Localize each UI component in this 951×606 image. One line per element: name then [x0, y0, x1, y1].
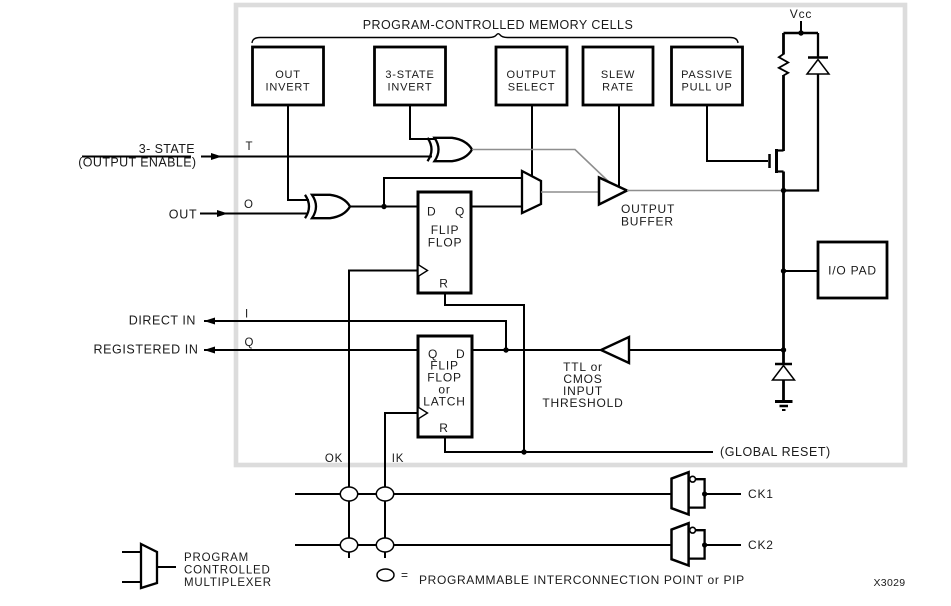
transistor Q1 passive pull-up [770, 149, 784, 173]
wire OK clock line [349, 271, 418, 559]
wire mux bypass from node [384, 178, 522, 207]
svg-text:MULTIPLEXER: MULTIPLEXER [184, 577, 272, 589]
memory cell box OUTPUT SELECT [496, 47, 567, 105]
svg-text:LATCH: LATCH [423, 395, 465, 409]
wire pad to input buffer [629, 349, 784, 351]
svg-text:Q: Q [455, 205, 465, 219]
PIP circle OK/CK1 [340, 487, 357, 501]
arrowhead O input [217, 210, 228, 217]
diode D1 to Vcc [807, 58, 829, 75]
label 3-STATE (OUTPUT ENABLE) [78, 142, 196, 170]
svg-text:PASSIVE: PASSIVE [681, 69, 733, 81]
junction dot pad node [781, 188, 786, 193]
svg-text:X3029: X3029 [874, 577, 906, 589]
svg-text:3-STATE: 3-STATE [385, 69, 434, 81]
svg-text:INVERT: INVERT [388, 82, 433, 94]
wire Vcc stub [800, 21, 802, 33]
wire Vcc rail [784, 32, 819, 35]
wire registered in [204, 349, 418, 351]
wire Vcc to protection diode [817, 33, 819, 58]
wire flip-flop U2 reset to global reset [445, 437, 713, 452]
wire mux output to buffer (gray) [541, 191, 599, 193]
wire PASSIVE PULL UP box to transistor gate [707, 105, 768, 161]
label TTL or CMOS INPUT THRESHOLD [542, 360, 623, 410]
PIP circle OK/CK2 [340, 538, 357, 552]
input buffer TTL/CMOS [601, 337, 629, 363]
junction dot at OUT XOR output [381, 204, 386, 209]
xor gate 3-state invert [428, 138, 473, 161]
svg-text:THRESHOLD: THRESHOLD [542, 396, 623, 410]
wire diode D1 to pad node [784, 74, 819, 191]
flip-flop U1 (output) [418, 192, 471, 293]
mux output select [522, 171, 541, 213]
PIP circle IK/CK1 [376, 487, 393, 501]
svg-text:R: R [439, 277, 448, 291]
memory cell box OUT INVERT [253, 47, 324, 105]
svg-text:DIRECT IN: DIRECT IN [129, 314, 196, 328]
svg-text:Q: Q [245, 337, 255, 349]
wire diode D2 to ground [782, 380, 785, 401]
diode D2 to ground [773, 364, 795, 380]
brace over memory cells [252, 34, 738, 43]
svg-text:(GLOBAL RESET): (GLOBAL RESET) [720, 445, 831, 459]
svg-text:FLOP: FLOP [428, 236, 463, 250]
wire direct in [204, 321, 506, 350]
label PROGRAM CONTROLLED MULTIPLEXER [184, 552, 272, 589]
svg-text:OUT: OUT [275, 69, 301, 81]
wire OUTPUT SELECT box to mux select [531, 105, 533, 176]
svg-text:IK: IK [392, 453, 404, 465]
svg-text:OUTPUT: OUTPUT [506, 69, 556, 81]
wire output buffer to pad node (gray) [627, 190, 784, 192]
junction dot reset [521, 449, 526, 454]
junction dot at I/O pad tap [781, 268, 786, 273]
svg-text:OUT: OUT [169, 208, 198, 222]
memory cell box SLEW RATE [583, 47, 653, 105]
clock triangle flip-flop U1 [418, 265, 428, 277]
wire to I/O pad box [784, 270, 819, 272]
arrowhead registered in [204, 347, 215, 354]
wire pad node down to I/O pad [782, 191, 785, 365]
svg-text:INVERT: INVERT [266, 82, 311, 94]
arrowhead T input [211, 153, 222, 160]
wire 3-STATE INVERT box to 3-state XOR top input [410, 105, 440, 139]
svg-text:CK1: CK1 [748, 487, 774, 501]
svg-text:CK2: CK2 [748, 538, 774, 552]
xor gate out invert [305, 195, 350, 218]
mux CK1 [672, 472, 742, 514]
ground [775, 402, 793, 411]
wire SLEW RATE box to output buffer [618, 105, 620, 188]
svg-text:BUFFER: BUFFER [621, 215, 674, 229]
output buffer [599, 178, 627, 205]
svg-text:D: D [427, 205, 436, 219]
wire flip-flop Q to mux [471, 206, 522, 208]
legend PIP circle [377, 569, 394, 581]
wire resistor to transistor [782, 75, 785, 151]
wire T input to 3-state XOR [201, 156, 432, 158]
PIP circle IK/CK2 [376, 538, 393, 552]
svg-text:I: I [245, 309, 249, 321]
junction dot input tap [781, 347, 786, 352]
svg-text:O: O [244, 199, 254, 211]
wire CK2 line [295, 544, 672, 546]
svg-text:CONTROLLED: CONTROLLED [184, 565, 271, 577]
I/O pad box [818, 242, 887, 298]
svg-text:PULL UP: PULL UP [681, 82, 732, 94]
wire IK clock line [385, 413, 418, 558]
label PIP legend [401, 568, 745, 587]
wire O input to OUT XOR [200, 213, 308, 215]
svg-text:PROGRAM-CONTROLLED MEMORY CELL: PROGRAM-CONTROLLED MEMORY CELLS [363, 18, 633, 32]
wire T input segment left [82, 156, 191, 158]
flip-flop U2 (input latch) [418, 336, 472, 437]
svg-text:OK: OK [325, 453, 343, 465]
svg-text:SELECT: SELECT [508, 82, 556, 94]
svg-text:RATE: RATE [602, 82, 634, 94]
wire 3-state XOR output (gray) [472, 150, 609, 183]
wire flip-flop U1 reset [445, 293, 524, 452]
svg-text:T: T [246, 141, 254, 153]
resistor pull-up [779, 54, 788, 76]
legend mux symbol [122, 544, 176, 588]
svg-text:SLEW: SLEW [601, 69, 635, 81]
wire input buffer to latch D [472, 349, 601, 351]
svg-text:3- STATE: 3- STATE [139, 142, 195, 156]
wire transistor drain to pad node [782, 172, 785, 193]
mux CK2 [672, 523, 742, 565]
wire CK1 line [295, 493, 672, 495]
memory cell box 3-STATE INVERT [375, 47, 446, 105]
junction dot direct-in tap [503, 347, 508, 352]
svg-text:PROGRAM: PROGRAM [184, 552, 249, 564]
label OUTPUT BUFFER [621, 202, 675, 229]
svg-text:Vcc: Vcc [790, 7, 812, 21]
svg-text:=: = [401, 568, 409, 582]
arrowhead direct in [204, 318, 215, 325]
svg-text:I/O PAD: I/O PAD [828, 264, 877, 278]
svg-text:R: R [439, 421, 448, 435]
svg-text:(OUTPUT ENABLE): (OUTPUT ENABLE) [78, 156, 196, 170]
clock triangle flip-flop U2 [418, 407, 428, 419]
wire OUT XOR output to flip-flop D [350, 206, 418, 208]
wire OUT INVERT box to OUT XOR top input [288, 105, 309, 200]
svg-text:PROGRAMMABLE INTERCONNECTION P: PROGRAMMABLE INTERCONNECTION POINT or PI… [419, 573, 745, 587]
svg-text:REGISTERED IN: REGISTERED IN [93, 343, 198, 357]
wire Vcc to resistor [782, 33, 785, 55]
memory cell box PASSIVE PULL UP [672, 47, 743, 105]
junction dot Vcc [798, 30, 803, 35]
IOB boundary frame [236, 5, 905, 465]
